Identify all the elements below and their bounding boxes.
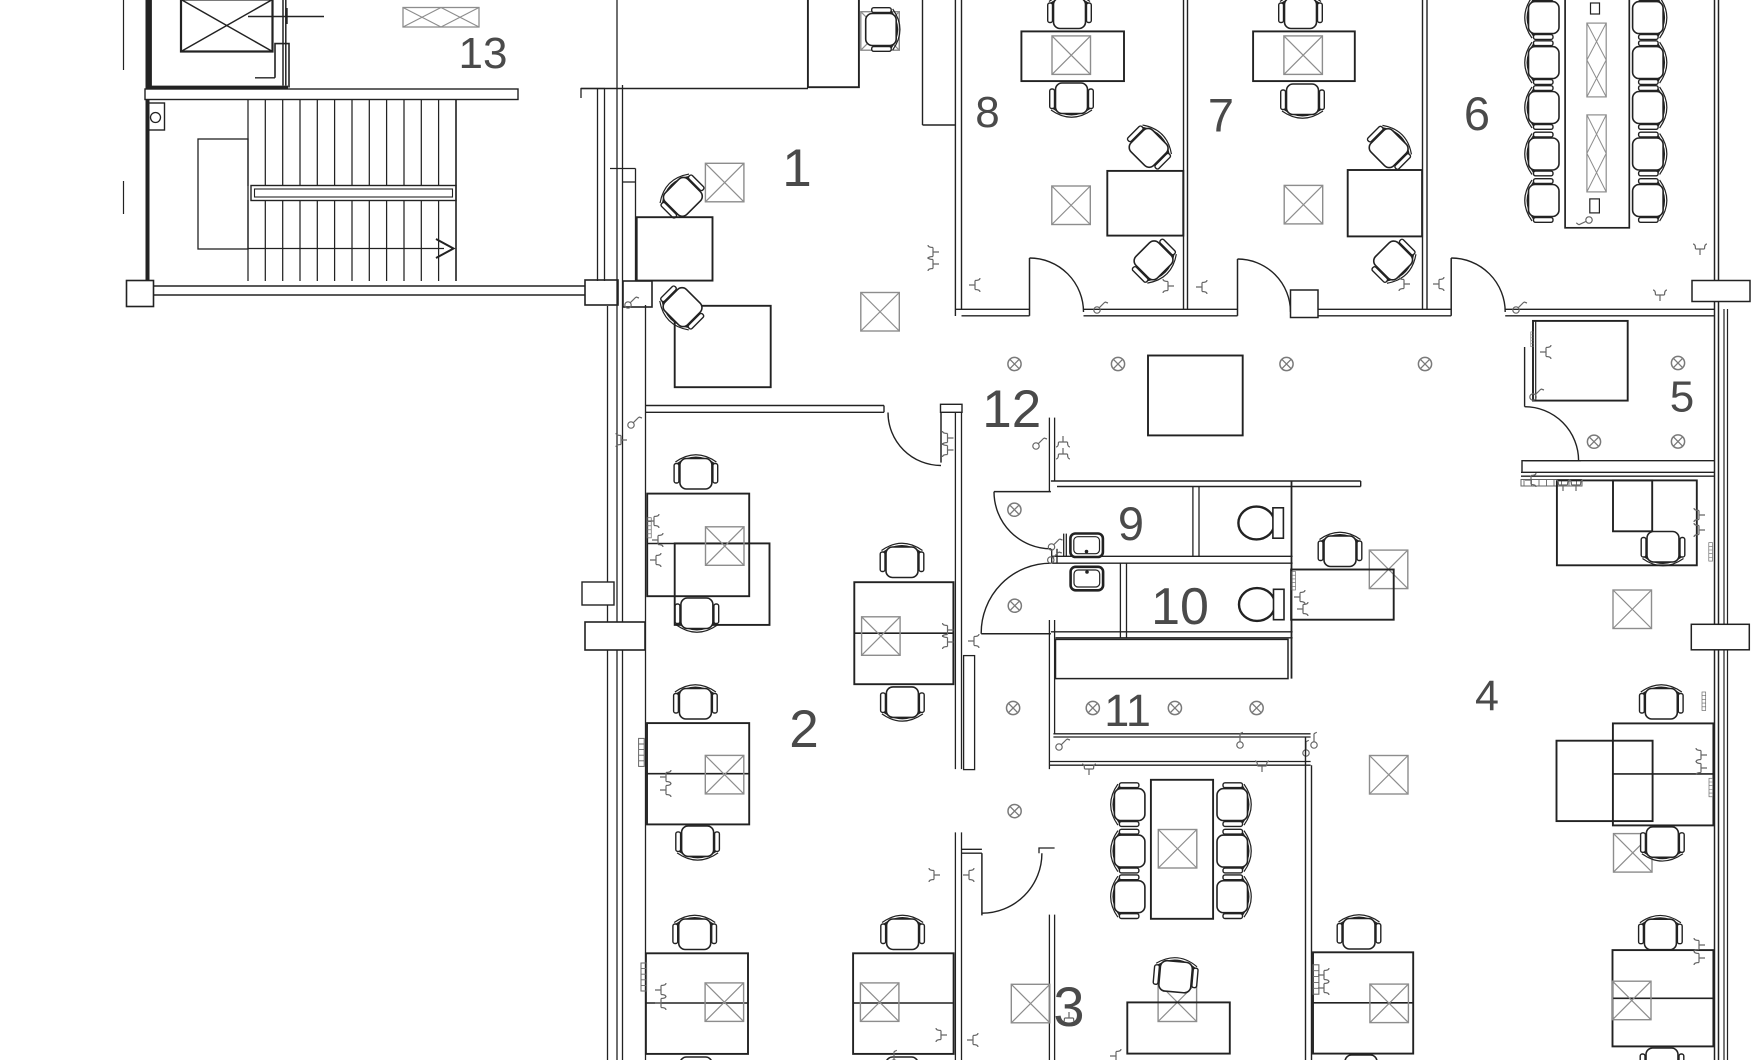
hall door stub bbox=[962, 848, 982, 850]
corridor wall lower segment bbox=[607, 306, 609, 1060]
column office-corner bbox=[623, 281, 652, 307]
wall box with circle (stair door detail) bbox=[148, 103, 165, 130]
wall glyph bbox=[1556, 480, 1570, 491]
stairwell bottom wall bbox=[127, 285, 618, 287]
ceiling light bbox=[1280, 357, 1293, 370]
chair room4 left bottom bbox=[1339, 1055, 1383, 1060]
ceiling light bbox=[1418, 357, 1431, 370]
chair office2 c2 top bbox=[674, 685, 718, 719]
door room8 bbox=[1029, 258, 1031, 316]
chair room4 c2 bottom bbox=[1641, 827, 1685, 861]
chair office2 c1 bottom bbox=[675, 598, 719, 632]
building east wall bbox=[1714, 0, 1716, 1060]
ceiling light bbox=[1008, 599, 1021, 612]
chair room6 right 1 bbox=[1633, 0, 1667, 39]
toilet room9 bbox=[1238, 507, 1283, 540]
room9 stall wall bbox=[1192, 487, 1194, 557]
elevator door notch bbox=[275, 44, 289, 88]
table phone b bbox=[1590, 199, 1600, 213]
wall glyph bbox=[929, 868, 940, 882]
xbox room4 left bbox=[1370, 984, 1409, 1023]
room8 alcove wall bbox=[922, 0, 924, 125]
xbox room8 low bbox=[1052, 186, 1091, 225]
corridor mid wall upper bbox=[954, 412, 956, 769]
radiator bbox=[1292, 572, 1296, 590]
wall glyph bbox=[943, 635, 954, 649]
xbox near label3 bbox=[1011, 984, 1050, 1023]
light xbox corridor top bbox=[861, 293, 900, 332]
hatched vent top bbox=[403, 8, 479, 28]
svg-text:11: 11 bbox=[1104, 685, 1151, 736]
xbox room4 a bbox=[1613, 590, 1652, 629]
wall glyph bbox=[650, 553, 661, 567]
side desk room7 bbox=[1348, 170, 1422, 236]
wall glyph bbox=[1048, 552, 1062, 563]
wall glyph bbox=[1694, 523, 1705, 537]
room4 top cluster desk2 bbox=[1613, 480, 1652, 531]
elevator shaft bbox=[148, 0, 152, 89]
door office2 north bbox=[940, 412, 942, 462]
wall glyph bbox=[1110, 1049, 1121, 1060]
room11 band north bbox=[1053, 733, 1310, 735]
long corridor wall B bbox=[622, 85, 624, 1060]
svg-text:9: 9 bbox=[1118, 497, 1144, 550]
wall glyph bbox=[1525, 473, 1536, 487]
chair room7 side bbox=[1362, 119, 1417, 174]
xbox office2 c4 bbox=[862, 617, 901, 656]
table hatch a bbox=[1587, 23, 1606, 97]
wall glyph bbox=[1056, 436, 1070, 447]
wall glyph bbox=[1696, 761, 1707, 775]
chair room4 c3 top bbox=[1639, 915, 1683, 949]
wall glyph bbox=[1693, 244, 1707, 255]
wall glyph bbox=[968, 634, 979, 648]
chair room4 c2 top bbox=[1640, 685, 1684, 719]
xbox room4 b bbox=[1614, 834, 1653, 873]
conference table room3 bbox=[1151, 780, 1213, 919]
sink room9 bbox=[1070, 534, 1103, 558]
room5 south wall A bbox=[1522, 461, 1581, 472]
ceiling light bbox=[1671, 435, 1684, 448]
desk room7 bbox=[1253, 31, 1355, 81]
elevator direction line bbox=[248, 16, 324, 18]
chair room4 c1 bbox=[1641, 532, 1685, 566]
room4 left cluster desk bbox=[1313, 952, 1413, 1053]
wall glyph bbox=[1653, 290, 1667, 301]
wall glyph bbox=[1163, 279, 1174, 293]
stair handrail bbox=[251, 186, 456, 201]
wall glyph bbox=[628, 417, 642, 428]
door room6 bbox=[1450, 258, 1452, 316]
door room5 bbox=[1525, 407, 1579, 461]
chair room6 left 5 bbox=[1525, 179, 1559, 223]
main corridor south wall of offices 8-7-6 bbox=[955, 308, 1029, 310]
office2 cluster5 desk bbox=[853, 953, 954, 1054]
wall bracket stub bbox=[581, 89, 605, 99]
chair office2 c5 bottom bbox=[880, 1057, 924, 1060]
corridor west wall upper bbox=[597, 89, 599, 282]
radiator bbox=[641, 963, 647, 991]
xbox room3 table bbox=[1158, 830, 1197, 869]
wall glyph bbox=[886, 1050, 904, 1060]
svg-text:12: 12 bbox=[982, 380, 1041, 439]
wall glyph bbox=[1318, 981, 1329, 995]
room3 west wall bbox=[1305, 737, 1307, 1060]
svg-text:4: 4 bbox=[1475, 672, 1499, 720]
office2 cluster3 desk bbox=[646, 953, 748, 1054]
wall between rooms 7 and 6 bbox=[1422, 0, 1424, 309]
chair room6 right 3 bbox=[1633, 86, 1667, 130]
room12 east wall upper bbox=[1048, 418, 1050, 492]
chair office2 c3 top bbox=[673, 915, 717, 949]
wall glyph bbox=[616, 433, 627, 447]
chair room8 side bbox=[1122, 119, 1177, 174]
radiator bbox=[1702, 692, 1706, 710]
stairs lower flight bbox=[247, 200, 249, 281]
radiator bbox=[639, 738, 645, 766]
wall glyph bbox=[1569, 480, 1583, 491]
room4 mid desk2 bbox=[1557, 741, 1653, 821]
chair office2 c1 top bbox=[674, 455, 718, 489]
wall glyph bbox=[625, 297, 639, 308]
stair right boundary wall bbox=[455, 100, 457, 282]
xbox office2 c5 bbox=[860, 983, 899, 1022]
wall stub mid-left bbox=[582, 582, 614, 605]
desk room1 b bbox=[675, 306, 771, 387]
radiator bbox=[647, 518, 651, 538]
wall glyph bbox=[1056, 739, 1070, 750]
light xbox room1 bbox=[705, 163, 744, 202]
room10 south wall bbox=[1051, 631, 1293, 633]
wall between rooms 8 and 7 bbox=[1183, 0, 1185, 309]
chair room3 left 3 bbox=[1111, 875, 1145, 919]
svg-text:1: 1 bbox=[782, 139, 811, 198]
stairwell left exterior wall bbox=[123, 0, 125, 70]
elevator door jambs bbox=[282, 0, 284, 86]
chair room7 bottom bbox=[1281, 84, 1325, 118]
chair room8 top bbox=[1048, 0, 1092, 29]
wall glyph bbox=[1056, 448, 1070, 459]
top corridor wall bbox=[581, 88, 808, 90]
wall glyph bbox=[1530, 389, 1544, 400]
wall glyph bbox=[1696, 748, 1707, 762]
ceiling light bbox=[1168, 701, 1181, 714]
office2 north wall bbox=[646, 405, 885, 407]
xbox office2 c3 bbox=[705, 983, 744, 1022]
chair room3 right 2 bbox=[1217, 829, 1251, 873]
xbox room4 corridor bbox=[1370, 756, 1409, 795]
xbox near desk12 bbox=[1369, 550, 1408, 589]
corridor shaft square bbox=[1148, 356, 1243, 436]
office2 cluster4 desk bbox=[854, 582, 953, 684]
wall glyph bbox=[1433, 277, 1444, 291]
band end glyphs bbox=[1298, 740, 1316, 758]
room8 west wall bbox=[954, 0, 956, 316]
wall glyph bbox=[967, 1033, 978, 1047]
east wall column lower bbox=[1691, 624, 1749, 650]
chair room7 corner bbox=[1367, 234, 1422, 289]
chair room6 right 2 bbox=[1633, 41, 1667, 85]
chair room3 right 3 bbox=[1217, 875, 1251, 919]
corridor mid wall cap bbox=[941, 404, 963, 412]
wall glyph bbox=[928, 245, 939, 259]
chair room8 bottom bbox=[1050, 83, 1094, 117]
chair room6 right 5 bbox=[1633, 179, 1667, 223]
chair office2 c2 bottom bbox=[676, 826, 720, 860]
chair room3 desk bbox=[1153, 956, 1199, 994]
wall glyph bbox=[1033, 438, 1047, 449]
stair landing slab bbox=[145, 89, 518, 100]
stairs upper flight bbox=[247, 100, 249, 187]
office2 cluster2 desk bbox=[647, 723, 749, 824]
wall glyph bbox=[1082, 764, 1096, 775]
chair room6 left 3 bbox=[1525, 86, 1559, 130]
door to hall bbox=[981, 853, 983, 915]
wall glyph bbox=[655, 983, 666, 997]
svg-text:2: 2 bbox=[789, 700, 818, 759]
svg-text:10: 10 bbox=[1151, 578, 1209, 636]
east wall column upper bbox=[1692, 281, 1750, 302]
wall glyph bbox=[1294, 590, 1305, 604]
ceiling light bbox=[1587, 435, 1600, 448]
svg-text:8: 8 bbox=[975, 88, 999, 137]
column bottom-left bbox=[127, 281, 154, 307]
chair room8 corner bbox=[1127, 234, 1182, 289]
door room10 bbox=[981, 633, 1051, 635]
office2 cluster1 desk B bbox=[675, 543, 770, 625]
wall glyph bbox=[1694, 951, 1705, 965]
long corridor wall A bbox=[616, 0, 618, 1060]
wall glyph bbox=[943, 623, 954, 637]
reception desk top bbox=[808, 0, 859, 87]
wall glyph bbox=[963, 868, 974, 882]
stair well rectangle bbox=[198, 139, 248, 249]
svg-text:6: 6 bbox=[1464, 87, 1490, 140]
column mid-left bbox=[585, 622, 645, 650]
toilet block east wall bbox=[1291, 481, 1293, 679]
wall glyph bbox=[1232, 732, 1250, 750]
desk room3 bbox=[1127, 1002, 1230, 1053]
wall glyph bbox=[1062, 1012, 1076, 1023]
ceiling light bbox=[1086, 701, 1099, 714]
wall glyph bbox=[1297, 602, 1308, 616]
chair room4 c3 bottom bbox=[1640, 1048, 1684, 1060]
room5 south wall B bbox=[1521, 471, 1715, 473]
conference table room6 bbox=[1565, 0, 1629, 228]
door block room7 bbox=[1291, 290, 1319, 318]
wall glyph bbox=[1094, 302, 1108, 313]
chair office2 c4 bottom bbox=[881, 687, 925, 721]
chair office2 c3 bottom bbox=[674, 1057, 718, 1060]
table phone a bbox=[1591, 3, 1600, 14]
chair office2 c5 top bbox=[881, 915, 925, 949]
chair room6 left 4 bbox=[1525, 132, 1559, 176]
wall stub between doors 9-10 bbox=[1051, 549, 1053, 563]
radiator bbox=[1709, 778, 1713, 796]
toilet room10 bbox=[1239, 588, 1284, 621]
hall door cap bbox=[1039, 848, 1055, 853]
wall glyph bbox=[969, 278, 980, 292]
room11 band south bbox=[1049, 761, 1310, 763]
wall glyph bbox=[660, 770, 671, 784]
sink room10 bbox=[1071, 567, 1104, 591]
desk room5 bbox=[1533, 321, 1628, 401]
chair reception bbox=[866, 8, 900, 52]
radiator bbox=[1313, 965, 1319, 994]
xbox office2 c2 bbox=[705, 755, 744, 794]
wall between rooms 9 and 10 bbox=[1052, 555, 1293, 557]
ceiling light bbox=[1008, 357, 1021, 370]
east exterior lines bbox=[1723, 309, 1725, 1060]
office2 west wall bbox=[645, 305, 647, 1060]
radiator bbox=[1709, 543, 1713, 561]
office2 west wall upper stub bbox=[610, 168, 636, 170]
room4 top cluster desk bbox=[1557, 480, 1697, 565]
column stair-right bbox=[585, 280, 618, 305]
table hatch b bbox=[1587, 115, 1606, 192]
desk room1 a bbox=[637, 217, 713, 280]
wall glyph bbox=[943, 443, 954, 457]
wall glyph bbox=[1694, 508, 1705, 522]
xbox room4 c bbox=[1613, 981, 1652, 1020]
wall glyph bbox=[1540, 345, 1551, 359]
wall glyph bbox=[660, 783, 671, 797]
room4 mid desk bbox=[1613, 723, 1714, 825]
xbox room3 desk bbox=[1158, 983, 1197, 1022]
radiator bbox=[1531, 332, 1534, 347]
xbox on desk room8 bbox=[1052, 36, 1091, 75]
svg-text:5: 5 bbox=[1670, 373, 1694, 422]
wall glyph bbox=[1318, 968, 1329, 982]
ceiling light bbox=[1008, 805, 1021, 818]
chair office2 c4 top bbox=[880, 543, 924, 577]
room5 west line bbox=[1524, 347, 1526, 407]
chair room3 left 2 bbox=[1111, 829, 1145, 873]
wall glyph bbox=[1399, 277, 1410, 291]
ceiling light bbox=[1671, 356, 1684, 369]
chair desk12 bbox=[1318, 532, 1362, 566]
chair room6 right 4 bbox=[1633, 132, 1667, 176]
wall glyph bbox=[928, 257, 939, 271]
side desk room8 bbox=[1107, 171, 1183, 236]
ceiling light bbox=[1111, 357, 1124, 370]
plenum below toilets bbox=[1056, 639, 1289, 678]
xbox office2 c1 bbox=[706, 527, 745, 566]
light xbox reception bbox=[861, 12, 900, 51]
wall glyph bbox=[1048, 539, 1062, 550]
wall glyph bbox=[943, 431, 954, 445]
room10 stall wall bbox=[1119, 563, 1121, 638]
corridor mid wall lower bbox=[954, 832, 956, 1060]
door room9 bbox=[994, 491, 1051, 493]
svg-text:7: 7 bbox=[1208, 89, 1234, 142]
elevator car bbox=[181, 0, 273, 52]
chair room4 left top bbox=[1337, 915, 1381, 949]
door room7 bbox=[1237, 259, 1239, 316]
room4 bottom desk bbox=[1613, 950, 1714, 1046]
svg-text:3: 3 bbox=[1053, 975, 1084, 1038]
office2 cluster1 desk A bbox=[647, 494, 749, 597]
sink partition room9 bbox=[1063, 534, 1065, 557]
chair room1 b bbox=[654, 281, 709, 336]
xbox on desk room7 bbox=[1284, 36, 1323, 75]
wall glyph bbox=[1196, 280, 1207, 294]
corridor wall left of plenum bbox=[1048, 620, 1050, 769]
ceiling light bbox=[1008, 503, 1021, 516]
wall glyph bbox=[1694, 938, 1705, 952]
stair direction arrow bbox=[248, 248, 444, 250]
corridor pilaster bbox=[964, 656, 975, 770]
chair room6 left 2 bbox=[1525, 41, 1559, 85]
wall glyph bbox=[1255, 761, 1269, 772]
sill bbox=[1521, 480, 1582, 487]
ceiling light bbox=[1007, 701, 1020, 714]
wall glyph bbox=[655, 996, 666, 1010]
chair room3 left 1 bbox=[1111, 783, 1145, 827]
toilet block north wall bbox=[1051, 480, 1361, 482]
chair room6 left 1 bbox=[1525, 0, 1559, 39]
desk room8 bbox=[1021, 31, 1124, 81]
ceiling light bbox=[1250, 701, 1263, 714]
xbox room7 low bbox=[1284, 185, 1323, 224]
chair room7 top bbox=[1279, 0, 1323, 29]
wall glyph bbox=[1513, 302, 1527, 313]
svg-text:13: 13 bbox=[459, 29, 508, 78]
desk right of toilets bbox=[1291, 570, 1394, 620]
wall glyph bbox=[936, 1028, 947, 1042]
hall east wall below door bbox=[1048, 915, 1050, 1060]
wall glyph bbox=[648, 514, 659, 528]
chair room3 right 1 bbox=[1217, 783, 1251, 827]
wall glyph bbox=[652, 533, 663, 547]
chair room1 a bbox=[654, 168, 709, 223]
